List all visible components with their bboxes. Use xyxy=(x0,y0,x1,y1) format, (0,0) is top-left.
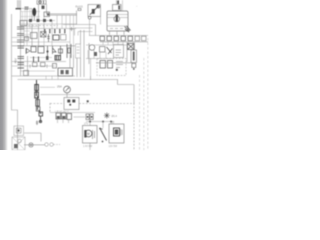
wire left stub to relay xyxy=(76,11,78,25)
T2 junction dot xyxy=(69,104,71,106)
wire drop x90 xyxy=(90,76,92,80)
relay row light marks xyxy=(74,116,86,118)
diode D9 xyxy=(26,48,30,54)
svg-text:27V: 27V xyxy=(84,123,89,126)
contact box pair xyxy=(86,114,93,120)
connector circle a xyxy=(45,143,49,147)
wire drops from power block xyxy=(110,31,125,35)
power block internal rows xyxy=(107,15,128,27)
component cluster B xyxy=(31,33,38,39)
bus under diode bank xyxy=(100,41,148,43)
wire meter drop xyxy=(66,93,68,98)
switch contact dots xyxy=(99,128,101,130)
wire bus y58.5 right xyxy=(86,58,114,60)
relay K1 mark circle xyxy=(39,1,41,3)
hanging tick b xyxy=(38,57,40,63)
T2 terminal right xyxy=(72,100,75,103)
wire mid verticals xyxy=(32,24,39,46)
power block center dark bar xyxy=(116,15,118,22)
contact row boxes y47-55 xyxy=(31,44,71,58)
switch diagonal SW1 xyxy=(100,129,107,141)
wire single to top edge xyxy=(122,0,124,11)
wire bus through relay row xyxy=(50,112,95,114)
relay K1 tick xyxy=(43,1,45,4)
wire drops under diode bank xyxy=(103,42,128,45)
wire baseline y45 right xyxy=(86,44,127,46)
tick marks y66 bus xyxy=(30,65,47,69)
contact dots xyxy=(87,116,93,118)
wire bus y63 right dark xyxy=(96,62,133,64)
lamp unit inner dark fill xyxy=(115,130,118,135)
fan small circle xyxy=(18,139,22,143)
svg-text:L/R AC AC C: L/R AC AC C xyxy=(55,111,69,114)
capacitor C1 xyxy=(25,7,29,9)
small comp below tall box xyxy=(132,64,136,68)
bottom bus line 1 xyxy=(12,75,76,77)
tiny label dashes y25 xyxy=(21,25,58,27)
svg-text:Ry101: Ry101 xyxy=(76,5,84,9)
svg-text:Ø1.4: Ø1.4 xyxy=(112,115,118,118)
wire vertical x103 xyxy=(102,122,104,129)
relay pivot circle bottom xyxy=(88,16,91,19)
dashed enclosure right edge xyxy=(133,103,135,150)
left page scan shadow xyxy=(0,0,8,150)
box outline right cluster xyxy=(114,45,124,58)
dark X box right xyxy=(128,44,135,50)
dark comps on bus y20.5 xyxy=(29,19,52,22)
svg-text:45V: 45V xyxy=(14,58,18,63)
sub-enclosure cell 1 xyxy=(100,61,106,69)
wire horizontal bus y20.5 xyxy=(21,20,56,22)
power block lamp circle xyxy=(114,16,120,22)
dark bar terminal xyxy=(16,8,22,9)
wire bottom horizontal xyxy=(24,144,45,146)
wire corner x95.5 xyxy=(95,25,97,36)
relay row dark fills xyxy=(57,116,66,119)
wire top-left vertical bus xyxy=(20,0,22,76)
relay row RL1 xyxy=(56,113,72,120)
svg-text:M: M xyxy=(87,132,90,136)
wire drops under relay row xyxy=(58,120,69,124)
small comp row on y62 bus xyxy=(33,63,38,67)
wire long horizontal y24.5 xyxy=(63,24,96,26)
wire blob lead xyxy=(33,16,35,21)
transformer T2 box xyxy=(64,98,79,110)
small comp x26 y38 xyxy=(25,37,29,41)
wire corner right of bus xyxy=(117,80,119,85)
wire corner mid-bottom xyxy=(24,133,41,142)
dark mark under K1 xyxy=(42,6,45,10)
lamp circle with X xyxy=(29,143,33,147)
relay pivot circle top xyxy=(97,5,100,8)
wire inner left vertical xyxy=(18,0,20,9)
wire verticals mid-right xyxy=(70,30,84,77)
wire bus y121.5 xyxy=(86,121,114,123)
bottom bus line 2 xyxy=(18,79,119,81)
bottom bus step line xyxy=(118,85,135,104)
LED indicator box xyxy=(58,68,73,76)
lamp star symbol xyxy=(104,113,110,119)
node top-left junction xyxy=(21,9,32,21)
right margin dashed line 3 xyxy=(147,38,149,150)
small comp below-left xyxy=(53,64,57,69)
motor box M2 xyxy=(83,126,98,144)
svg-text:25A: 25A xyxy=(57,85,62,89)
junction dot right xyxy=(87,100,89,102)
wire drops mid-right xyxy=(88,50,106,59)
diode hatch at block corner xyxy=(125,26,131,32)
wire nested corner a xyxy=(75,28,93,36)
T2 terminal left xyxy=(67,100,70,103)
lamp unit side marks xyxy=(121,129,123,136)
wire nested corner b xyxy=(78,32,93,36)
wire bus y61.5 xyxy=(12,61,66,63)
svg-text:1.4V 8W: 1.4V 8W xyxy=(83,145,93,148)
bus bar under power block xyxy=(89,35,148,37)
capacitor C3 left stack xyxy=(17,34,24,36)
tall box mid column xyxy=(76,44,81,58)
lamp unit inner dark rect xyxy=(114,128,120,136)
wire fine mesh top-left xyxy=(21,12,41,35)
bus tick marks bottom xyxy=(46,76,58,80)
diode bank D1..D8 row right xyxy=(100,36,146,41)
plus mark symbol xyxy=(70,27,74,31)
wire outer box left edge xyxy=(12,14,18,150)
power block bottom marks xyxy=(110,28,123,30)
wire pair to top edge xyxy=(117,0,119,5)
dashed enclosure top edge xyxy=(50,103,134,105)
fuse stack lower part xyxy=(36,96,43,123)
fuse box above block xyxy=(113,5,122,11)
dark dot in sub-enclosure xyxy=(116,69,118,71)
junction dot x133 xyxy=(133,68,135,70)
arrow diagonals right cluster xyxy=(107,47,113,54)
ammeter M1 circle xyxy=(64,86,71,93)
component H dark blob xyxy=(55,56,61,61)
capacitor C4 left stack xyxy=(17,40,24,42)
motor dark mark xyxy=(84,130,86,138)
sub-enclosure cell 2 xyxy=(108,61,113,69)
heater inner dark dot xyxy=(17,129,19,131)
power block PS1 outline xyxy=(107,11,128,31)
wire vertical x27.5 xyxy=(27,56,29,75)
connector pair circles dashed xyxy=(54,144,61,146)
motor circle xyxy=(85,130,92,137)
small comp bottom-left corner of box xyxy=(24,71,29,76)
tall box ticks xyxy=(77,47,80,53)
dashed enclosure left edge xyxy=(49,103,51,112)
tall box inner bar xyxy=(133,52,135,61)
svg-text:12V: 12V xyxy=(110,122,115,125)
wire fine mesh verticals top-left xyxy=(23,9,38,29)
dark tick on bus y14 xyxy=(47,13,50,16)
tiny comp above corner xyxy=(36,121,38,126)
wire horizontal bus y14 xyxy=(46,14,77,15)
relay Ry101 box xyxy=(88,5,101,17)
dark bar between top wires xyxy=(117,1,119,5)
right margin dashed line 1 xyxy=(139,75,141,150)
dashed sub-enclosure xyxy=(97,59,126,76)
resistor row r1..r5 below bus xyxy=(44,29,66,34)
dark mark mid xyxy=(94,52,97,56)
ammeter needle xyxy=(66,88,69,91)
lamp unit box right xyxy=(109,124,124,143)
connector circle b xyxy=(50,143,54,147)
right margin dashed line 2 xyxy=(143,58,145,150)
small mark under label xyxy=(78,9,81,11)
component cluster C box with X xyxy=(41,32,47,38)
wire mesh horizontals upper box xyxy=(12,24,77,71)
wire vertical x90 down xyxy=(89,120,91,151)
relay arrowhead xyxy=(96,5,99,8)
small comp row on y62 bus b xyxy=(41,63,46,67)
wire mesh verticals upper box xyxy=(24,9,74,56)
marks in right box xyxy=(116,50,122,55)
junction dots on bus xyxy=(89,121,112,123)
battery stack 45V xyxy=(18,46,25,68)
tall box on x133 xyxy=(131,50,137,63)
wire meter bottom bus xyxy=(41,94,91,96)
switch arrow barb xyxy=(100,128,103,131)
wire relay drop left xyxy=(90,17,101,36)
hanging blob c xyxy=(46,56,49,60)
small comp x49 y37 xyxy=(47,34,49,42)
heater box with inner square xyxy=(14,126,24,136)
IC U3 small box xyxy=(53,35,59,40)
wire stack arm y87 xyxy=(40,86,55,88)
motor inner marks xyxy=(93,130,95,139)
dark bar in fuse box xyxy=(118,6,120,10)
sub-enclosure marks xyxy=(116,62,123,68)
connector block lower-left of top xyxy=(20,21,27,26)
wire vertical x90.5 xyxy=(90,59,92,81)
small box E xyxy=(61,35,67,41)
relay box K1 top-left xyxy=(37,0,46,4)
wire verticals mid-right cont xyxy=(77,30,81,77)
wire right area verticals xyxy=(88,43,90,64)
small boxes right cluster xyxy=(100,47,106,53)
transistor Q1 dark electrolytic blob xyxy=(32,8,36,16)
relay core dark blob xyxy=(92,9,95,14)
resistor R1 small box xyxy=(44,12,50,17)
bus y28.5 middle xyxy=(21,28,76,30)
svg-text:--: -- xyxy=(136,5,138,8)
fan box with X xyxy=(12,137,25,150)
relay armature diagonal arrow xyxy=(90,6,98,15)
svg-text:12V 5W: 12V 5W xyxy=(109,145,118,148)
component on x133 wire xyxy=(133,42,135,50)
rectifier circle xyxy=(89,45,95,51)
wire from relay down xyxy=(39,4,47,21)
hanging tick a xyxy=(33,57,35,63)
capacitor C2 left stack xyxy=(17,27,24,29)
fan dark blob xyxy=(14,144,18,148)
wire vertical x127 xyxy=(126,43,128,63)
wire bus y46 xyxy=(12,45,75,47)
fuse stack left-middle xyxy=(35,80,39,98)
